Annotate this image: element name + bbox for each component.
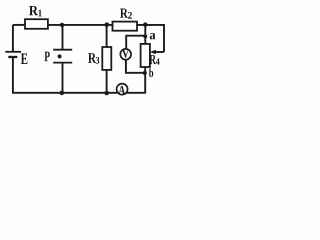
label R4 subscript 4 <box>156 58 160 64</box>
junction node bottom-R3 <box>104 91 109 96</box>
label E <box>21 54 28 64</box>
node b junction <box>143 71 147 75</box>
capacitor P bottom plate <box>53 62 72 64</box>
label b <box>149 68 153 76</box>
resistor R4 rheostat body <box>141 44 150 67</box>
voltmeter circle <box>120 49 131 60</box>
wire P branch lower <box>62 63 64 93</box>
wire top right segment and right edge down to slider <box>137 25 164 52</box>
ammeter letter A <box>118 86 125 95</box>
wire V top lead <box>126 36 145 49</box>
node a junction <box>143 34 147 38</box>
label R3 letter R <box>88 53 96 62</box>
wire left edge lower <box>12 57 14 93</box>
junction node bottom-P <box>60 91 65 96</box>
ammeter circle <box>117 84 128 95</box>
wire bottom right segment <box>127 92 146 94</box>
label R2 subscript 2 <box>128 12 132 19</box>
charged particle in capacitor P <box>58 54 62 58</box>
capacitor P top plate <box>53 49 72 51</box>
wire P branch upper <box>62 25 64 50</box>
voltmeter letter V <box>122 49 129 57</box>
junction node top-R2-right <box>143 22 147 26</box>
wire top-left segment <box>13 24 25 26</box>
label R1 subscript 1 <box>38 10 41 17</box>
wire V bottom lead <box>126 59 145 73</box>
junction node top-R3 <box>105 22 110 27</box>
label P <box>44 52 49 61</box>
label R3 subscript 3 <box>96 57 100 64</box>
junction node top-P <box>60 23 64 27</box>
wire R3 branch upper <box>106 25 108 47</box>
rheostat slider arrow line <box>155 51 164 53</box>
wire top middle segment <box>48 24 113 26</box>
wire R2 right dot down to node a and R4 top <box>144 25 146 44</box>
resistor R3 <box>102 47 111 70</box>
label R4 letter R <box>149 55 156 64</box>
label R2 letter R <box>120 9 128 18</box>
wire bottom left segment <box>12 92 118 94</box>
wire left edge upper to battery <box>12 25 14 52</box>
wire R4 bottom to node b and down to bottom corner <box>144 67 146 93</box>
wire R3 branch lower <box>106 70 108 93</box>
rheostat slider arrowhead <box>150 50 156 55</box>
battery E short plate <box>8 56 17 58</box>
battery E long plate <box>5 51 21 53</box>
resistor R2 <box>113 22 138 31</box>
label a <box>150 33 156 39</box>
resistor R1 <box>25 19 48 29</box>
label R1 letter R <box>29 6 38 15</box>
